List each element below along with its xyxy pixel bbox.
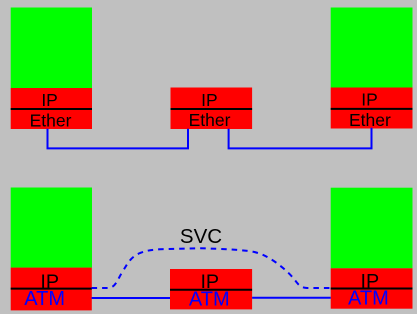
svg-text:IP: IP: [201, 90, 218, 110]
svg-text:ATM: ATM: [24, 288, 65, 310]
svg-text:ATM: ATM: [189, 289, 230, 311]
svg-text:Ether: Ether: [349, 110, 391, 130]
svg-text:IP: IP: [361, 90, 378, 110]
svg-text:Ether: Ether: [30, 110, 72, 130]
svg-text:SVC: SVC: [180, 225, 222, 248]
svg-text:IP: IP: [41, 90, 58, 110]
svg-text:Ether: Ether: [189, 110, 231, 130]
svg-text:ATM: ATM: [348, 288, 389, 310]
